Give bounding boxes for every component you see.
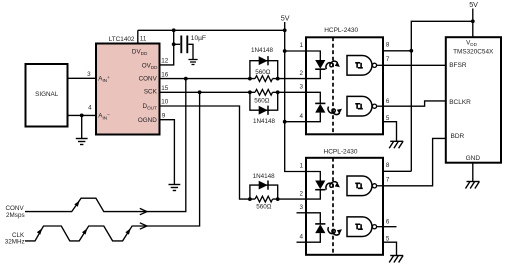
svg-text:7: 7 <box>386 56 390 63</box>
svg-text:560Ω: 560Ω <box>254 97 270 104</box>
svg-text:6: 6 <box>386 219 390 226</box>
svg-text:CONV: CONV <box>139 75 158 82</box>
svg-text:12: 12 <box>161 58 169 65</box>
svg-text:LTC1402: LTC1402 <box>109 36 135 43</box>
svg-text:6: 6 <box>386 98 390 105</box>
svg-text:11: 11 <box>140 35 147 42</box>
svg-text:BDR: BDR <box>451 133 465 140</box>
svg-text:8: 8 <box>386 162 390 169</box>
svg-text:9: 9 <box>162 112 166 119</box>
svg-text:5V: 5V <box>281 14 290 23</box>
svg-text:2Msps: 2Msps <box>6 212 25 219</box>
svg-text:3: 3 <box>299 84 303 91</box>
svg-text:BFSR: BFSR <box>449 62 467 69</box>
svg-text:HCPL-2430: HCPL-2430 <box>324 149 358 156</box>
svg-text:2: 2 <box>299 70 303 77</box>
svg-text:32MHz: 32MHz <box>5 239 25 246</box>
svg-text:5: 5 <box>386 235 390 242</box>
svg-text:HCPL-2430: HCPL-2430 <box>324 27 358 34</box>
svg-text:560Ω: 560Ω <box>256 204 272 211</box>
svg-text:1N4148: 1N4148 <box>253 173 276 180</box>
svg-text:15: 15 <box>161 85 169 92</box>
svg-text:10µF: 10µF <box>191 35 206 42</box>
svg-text:1N4148: 1N4148 <box>251 47 274 54</box>
svg-text:OGND: OGND <box>138 117 157 124</box>
svg-text:SCK: SCK <box>144 89 158 96</box>
svg-text:3: 3 <box>87 71 91 78</box>
svg-text:7: 7 <box>386 177 390 184</box>
svg-text:5V: 5V <box>469 0 478 9</box>
svg-text:4: 4 <box>88 104 92 111</box>
svg-text:1: 1 <box>299 163 303 170</box>
svg-text:SIGNAL: SIGNAL <box>35 91 59 98</box>
svg-text:1N4148: 1N4148 <box>253 118 276 125</box>
svg-text:BCLKR: BCLKR <box>449 99 471 106</box>
svg-text:TMS320C54X: TMS320C54X <box>453 49 494 56</box>
svg-text:8: 8 <box>386 41 390 48</box>
svg-text:10: 10 <box>161 99 169 106</box>
svg-text:5: 5 <box>386 115 390 122</box>
svg-text:3: 3 <box>299 204 303 211</box>
svg-text:4: 4 <box>299 233 303 240</box>
svg-text:560Ω: 560Ω <box>255 69 271 76</box>
svg-text:2: 2 <box>299 190 303 197</box>
svg-text:4: 4 <box>299 113 303 120</box>
svg-text:GND: GND <box>466 155 481 162</box>
svg-text:1: 1 <box>299 42 303 49</box>
svg-text:16: 16 <box>161 71 169 78</box>
